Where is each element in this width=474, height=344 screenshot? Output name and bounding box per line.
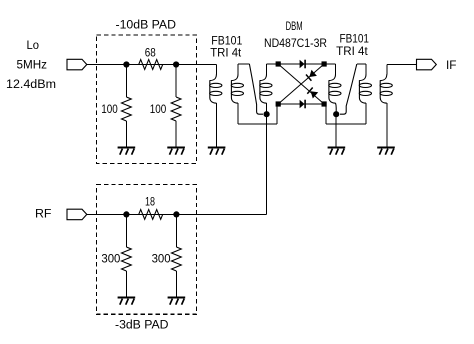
wire W5 top lead diagonal to center tap	[340, 64, 357, 114]
svg-text:TRI 4t: TRI 4t	[336, 46, 368, 58]
diode D4 (on BL-TR diagonal, cathode toward BL)	[309, 70, 317, 77]
wire W2 top rail stub	[237, 64, 239, 75]
wire W2 top lead diagonal to center tap	[249, 64, 263, 114]
svg-text:ND487C1-3R: ND487C1-3R	[264, 38, 327, 50]
inductor T2 winding W4 (secondary)	[329, 74, 336, 103]
wire W4 bottom lead to center tap	[335, 103, 338, 114]
wire W5 bottom lead	[365, 103, 367, 124]
svg-text:RF: RF	[35, 209, 52, 221]
ground under W6	[377, 147, 395, 149]
wire T2 lower link	[326, 123, 366, 125]
svg-text:300: 300	[152, 253, 171, 265]
wire link up to node BL	[276, 105, 278, 124]
node BL	[276, 101, 281, 106]
junction dot T1 center tap (node CT1)	[264, 111, 270, 117]
wire R5 top lead	[125, 214, 127, 247]
inductor T1 winding W2	[231, 74, 238, 103]
svg-text:TRI 4t: TRI 4t	[210, 47, 242, 59]
diode D1 (top, anode TL cathode TR)	[300, 60, 305, 68]
wire W3 top stub	[266, 64, 268, 75]
junction dot pad1 right	[173, 61, 179, 67]
wire link up to node BR	[325, 105, 327, 124]
svg-text:-3dB PAD: -3dB PAD	[115, 319, 169, 331]
inductor T1 winding W3 (secondary)	[260, 74, 267, 103]
resistor R2 100 (shunt left)	[122, 97, 132, 121]
svg-text:100: 100	[101, 104, 118, 116]
wire W6 top lead	[386, 65, 388, 75]
ground under R5	[118, 297, 136, 299]
junction dot pad1 left	[123, 61, 129, 67]
resistor R6 300 (shunt right)	[172, 247, 182, 271]
svg-text:Lo: Lo	[27, 40, 40, 52]
ground under R3	[167, 147, 185, 149]
svg-text:100: 100	[150, 104, 167, 116]
port J3 IF	[417, 59, 437, 70]
ground under CT2	[328, 147, 346, 149]
svg-text:FB101: FB101	[211, 35, 242, 47]
resistor R5 300 (shunt left)	[122, 247, 132, 271]
svg-text:300: 300	[101, 253, 120, 265]
wire R5 bottom lead	[125, 271, 127, 298]
wire R2 bottom lead	[125, 121, 127, 148]
svg-text:DBM: DBM	[286, 21, 303, 33]
node TR	[322, 61, 327, 66]
node TL	[276, 61, 281, 66]
wire CT2 to ground	[335, 114, 337, 147]
junction dot pad2 left	[123, 211, 129, 217]
svg-text:5MHz: 5MHz	[17, 60, 48, 72]
wire ring diagonal TL-BR	[278, 64, 324, 104]
junction dot pad2 right	[173, 211, 179, 217]
diode D3 (on TL-BR diagonal, cathode toward TL)	[311, 91, 319, 98]
wire Lo rail	[87, 64, 217, 66]
wire ring top edge	[278, 63, 324, 65]
junction dot T2 center tap (node CT2)	[333, 111, 339, 117]
wire R2 top lead	[125, 65, 127, 98]
wire ring bottom edge	[278, 103, 324, 105]
resistor R1 68 (series)	[139, 60, 163, 70]
resistor R3 100 (shunt right)	[171, 97, 181, 121]
wire W2 bottom lead	[237, 103, 239, 124]
wire R6 top lead	[175, 214, 177, 247]
ground under R6	[168, 297, 186, 299]
wire W3 bottom lead to center tap	[266, 103, 268, 114]
svg-text:12.4dBm: 12.4dBm	[6, 79, 56, 91]
port J2 RF	[67, 209, 87, 220]
diode D2 (bottom, anode BL cathode BR)	[300, 100, 305, 108]
inductor T2 winding W5	[359, 74, 366, 103]
node BR	[322, 101, 327, 106]
wire W4 top stub	[324, 63, 335, 65]
svg-text:FB101: FB101	[340, 34, 370, 46]
wire R3 bottom lead	[175, 121, 177, 148]
svg-text:18: 18	[145, 196, 155, 208]
wire ring diagonal BL-TR	[278, 64, 324, 104]
inductor T1 winding W1 (primary)	[210, 74, 217, 103]
wire R3 top lead	[175, 65, 177, 98]
wire W1 to ground	[215, 103, 217, 148]
svg-text:IF: IF	[446, 60, 457, 72]
attenuator box -10dB PAD	[97, 35, 197, 164]
wire W1 top lead	[215, 65, 217, 75]
wire RF rail	[87, 213, 267, 215]
svg-text:-10dB PAD: -10dB PAD	[116, 20, 177, 32]
wire RF feed vertical	[266, 114, 268, 214]
wire IF rail	[387, 64, 417, 66]
port J1 Lo	[67, 59, 87, 70]
inductor T2 winding W6 (IF output)	[380, 74, 387, 103]
wire T1 lower link	[238, 123, 277, 125]
resistor R4 18 (series)	[139, 210, 163, 220]
wire W5 top rail stub	[365, 64, 367, 75]
ground under W1	[208, 147, 226, 149]
svg-text:68: 68	[145, 47, 156, 59]
wire R6 bottom lead	[175, 271, 177, 298]
ground under R2	[118, 147, 136, 149]
wire W6 to ground	[386, 103, 388, 148]
attenuator box -3dB PAD	[97, 184, 197, 314]
